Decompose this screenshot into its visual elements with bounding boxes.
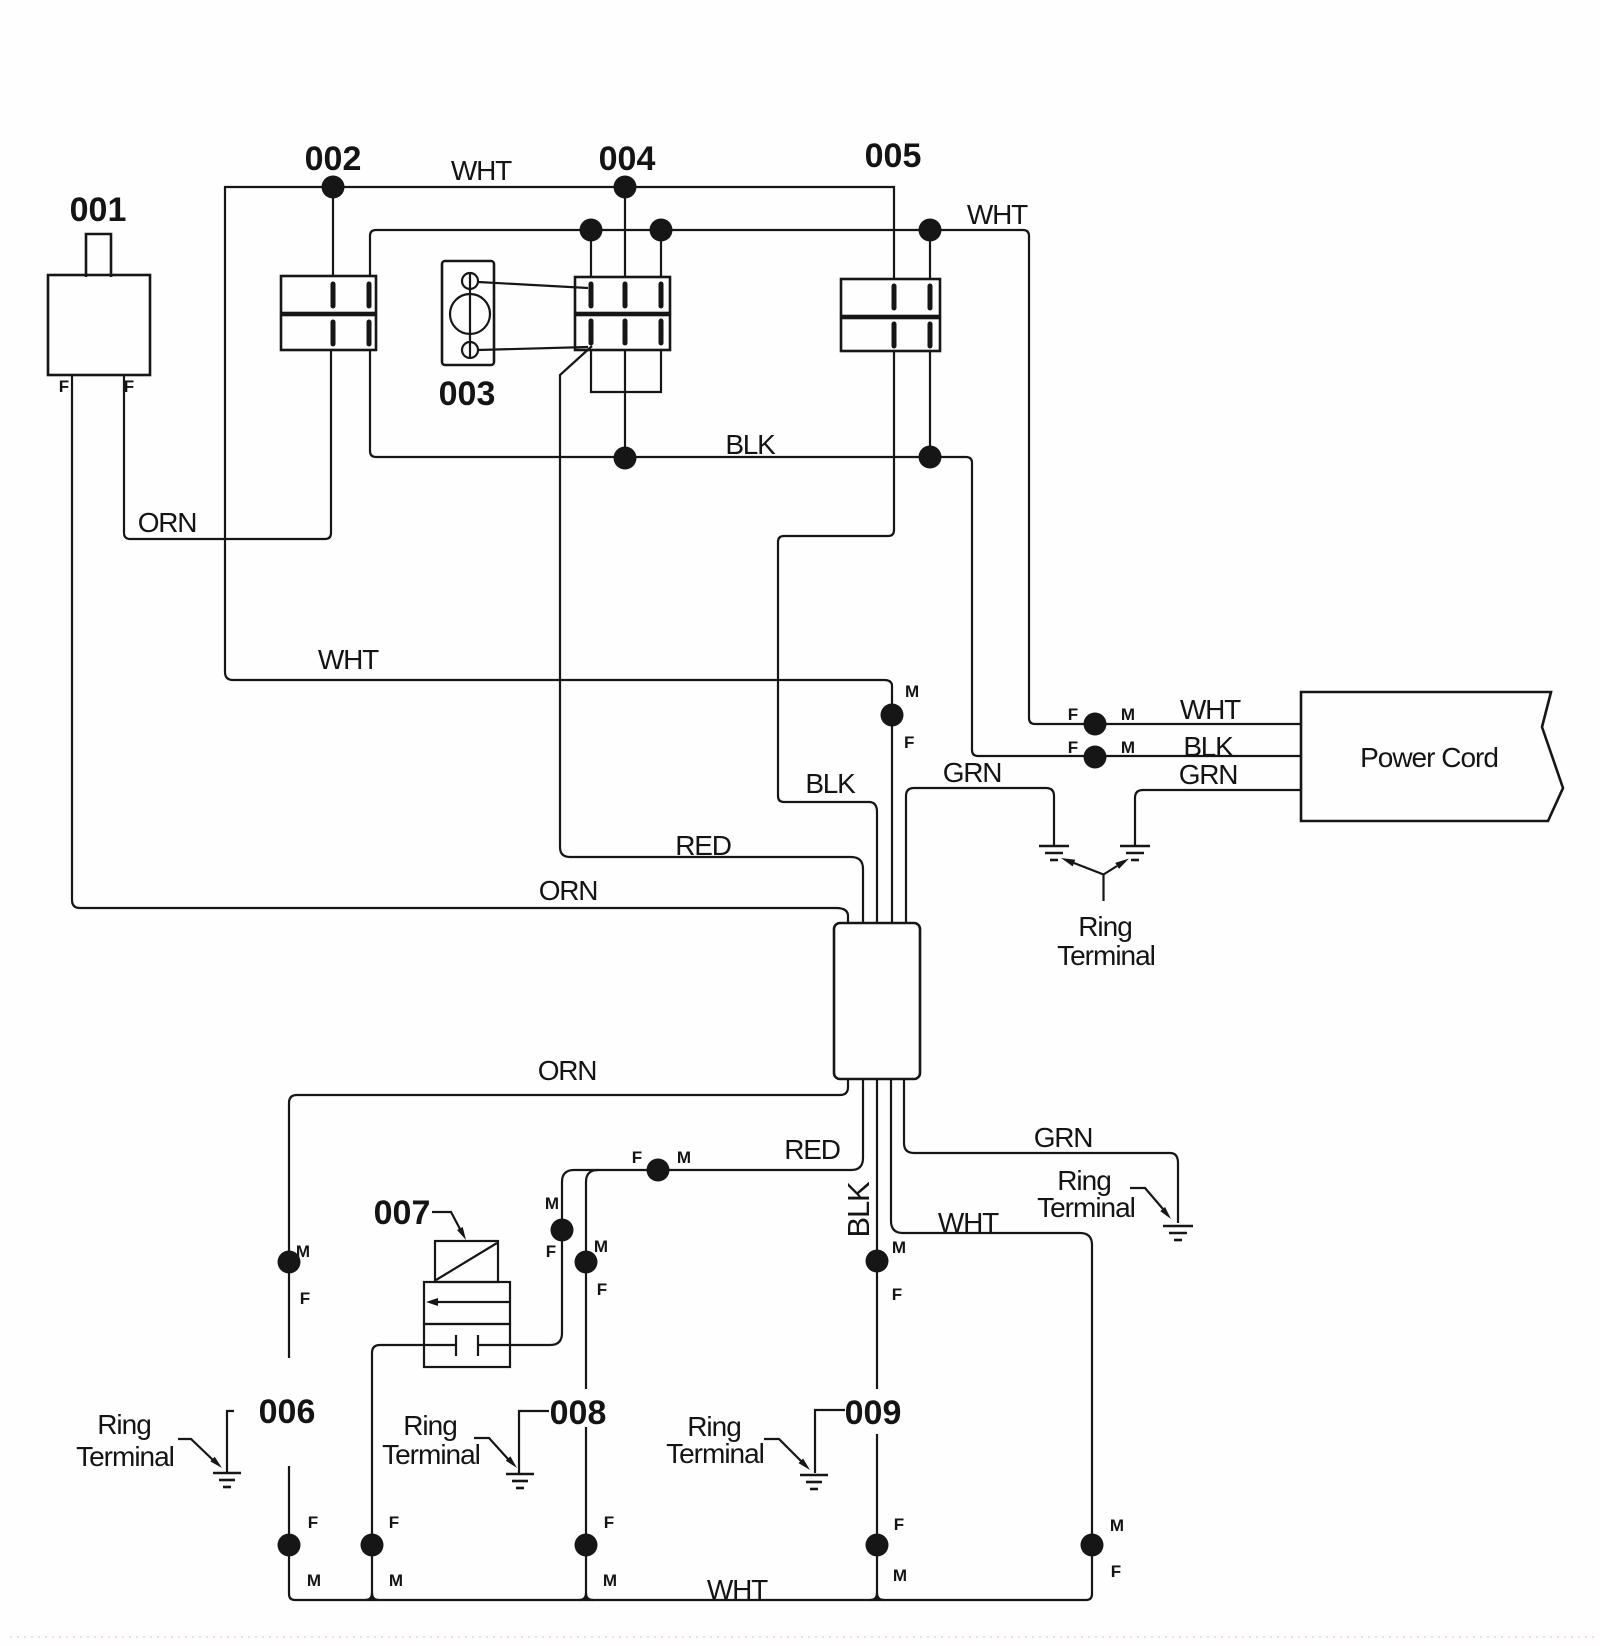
wire RED 004 to junction box [560,346,863,923]
svg-text:WHT: WHT [1180,694,1241,725]
svg-text:M: M [893,1566,907,1585]
svg-text:F: F [604,1513,614,1532]
svg-text:WHT: WHT [451,155,512,186]
svg-text:F: F [546,1242,556,1261]
svg-text:M: M [545,1194,559,1213]
wire fillet 008 rail junction [579,1593,593,1600]
label Ring Terminal power cord with arrows [1057,858,1155,971]
wire ORN 001 to 002 [124,350,331,539]
svg-text:Terminal: Terminal [76,1441,174,1472]
connector dot 006 M-F [278,1242,311,1308]
label Ring Terminal 008 with arrow [382,1410,517,1470]
ground ring terminal left of Power Cord [1039,846,1069,860]
svg-text:ORN: ORN [539,875,598,906]
junction dot 002 [322,176,345,199]
label Ring Terminal GRN right with arrow [1037,1165,1171,1223]
ground ring terminal under Power Cord [1120,846,1150,860]
wire fillet 009 rail junction [870,1593,884,1600]
wire 005 top-right pin drop [929,230,931,279]
svg-text:Ring: Ring [403,1410,457,1441]
svg-text:Terminal: Terminal [666,1438,764,1469]
connector dot 008 bottom F-M [575,1513,618,1590]
svg-text:M: M [1121,705,1135,724]
svg-text:004: 004 [599,140,656,178]
svg-text:M: M [1110,1516,1124,1535]
junction dot BLK 004 [614,447,637,470]
wire 003 bottom to 004 [478,347,588,350]
junction dot BLK 005 [919,446,942,469]
svg-text:F: F [59,377,69,396]
svg-text:Ring: Ring [1078,911,1132,942]
connector dot 008 M-F [575,1237,609,1299]
connector dot 007 M-F [545,1194,574,1261]
scan artifact dotted line [10,1636,1595,1638]
svg-text:006: 006 [259,1393,316,1431]
wire 004 top-left pin drop [590,230,592,277]
svg-text:007: 007 [374,1194,431,1232]
wire fillet 007 rail junction [365,1593,379,1600]
svg-text:WHT: WHT [318,644,379,675]
svg-text:GRN: GRN [1034,1122,1093,1153]
svg-text:BLK: BLK [841,1181,876,1238]
svg-text:002: 002 [305,140,362,178]
svg-text:F: F [1068,738,1078,757]
svg-text:BLK: BLK [805,768,856,799]
wire 002 top-left pin drop [332,187,334,276]
connector 004 body [575,277,670,350]
svg-text:BLK: BLK [1183,731,1234,762]
wire RED junction box to 007 [510,1079,863,1345]
svg-text:M: M [677,1148,691,1167]
svg-text:ORN: ORN [538,1055,597,1086]
svg-text:F: F [1068,705,1078,724]
wire 005 bottom-right drop [929,351,931,458]
label Ring Terminal 009 with arrow [666,1411,810,1470]
label Ring Terminal 006 with arrow [76,1409,222,1472]
wire 008 branch to bottom rail [586,1170,598,1600]
connector dot 007 bottom F-M [361,1513,404,1590]
wire WHT rail B to Power Cord [370,230,1301,724]
svg-text:Terminal: Terminal [382,1439,480,1470]
svg-text:BLK: BLK [725,429,776,460]
connector dot BLK F-M power cord [1068,738,1135,769]
label gap 008 [578,1389,594,1427]
svg-text:GRN: GRN [1179,759,1238,790]
wire 004 bottom-middle drop [624,350,626,458]
svg-text:M: M [307,1571,321,1590]
svg-text:M: M [389,1571,403,1590]
junction dot 004 [614,176,637,199]
junction dot rail B left [580,219,603,242]
wire BLK 005 to junction box [778,351,894,923]
svg-text:F: F [124,377,134,396]
connector dot WHT F-M power cord [1068,705,1135,736]
svg-text:F: F [308,1513,318,1532]
svg-text:F: F [904,733,914,752]
svg-text:M: M [1121,738,1135,757]
svg-text:F: F [1111,1562,1121,1581]
svg-text:005: 005 [865,137,922,175]
wire 003 top to 004 [478,282,588,288]
svg-text:008: 008 [550,1394,607,1432]
svg-text:RED: RED [784,1134,840,1165]
wire GRN junction box to ring terminal [906,788,1054,923]
svg-text:F: F [597,1280,607,1299]
ground ring terminal GRN right [1163,1226,1193,1240]
svg-text:GRN: GRN [943,757,1002,788]
wire WHT rail A with 005/002 drop [225,187,894,923]
Power Cord box [1301,692,1563,821]
wire 007 left to bottom rail [372,1345,424,1600]
wire GRN junction box to right ring terminal [904,1079,1178,1223]
label gap 009 [869,1389,885,1434]
connector dot WHT bottom M-F [1081,1516,1125,1581]
svg-text:F: F [632,1148,642,1167]
connector dot WHT M-F [881,682,920,752]
svg-text:F: F [300,1289,310,1308]
ground ring terminal 008 with leader [506,1411,549,1488]
connector dot BLK M-F [866,1238,907,1304]
svg-text:F: F [892,1285,902,1304]
connector 002 body [281,276,376,350]
svg-text:M: M [603,1571,617,1590]
connector 005 body [841,279,940,351]
ground ring terminal 006 [213,1411,241,1487]
junction dot rail B right [650,219,673,242]
svg-text:Ring: Ring [97,1409,151,1440]
svg-text:RED: RED [675,830,731,861]
label gap 006 [281,1358,297,1466]
svg-text:Terminal: Terminal [1037,1192,1135,1223]
svg-text:001: 001 [70,191,127,229]
label 007 with pointer [374,1194,466,1240]
lamp 003 body [442,261,494,365]
svg-text:Power Cord: Power Cord [1360,742,1498,773]
connector dot 006 bottom F-M [278,1513,322,1590]
svg-text:WHT: WHT [967,199,1028,230]
svg-text:M: M [892,1238,906,1257]
svg-text:WHT: WHT [938,1207,999,1238]
wire 004 bottom U loop [591,350,661,392]
svg-text:F: F [894,1515,904,1534]
wire 004 top-right pin drop [660,230,662,277]
wire BLK rail 002 to Power Cord [370,350,1301,756]
wire ORN 001 left to junction box [72,375,848,923]
solenoid 007 body [424,1241,510,1367]
connector dot RED F-M [632,1148,691,1182]
wire GRN Power Cord to ring terminal [1135,790,1301,845]
wire ORN junction box to 006 plus bottom WHT rail plus WHT right riser [289,1079,1092,1600]
wire 004 top-middle pin drop [624,187,626,277]
connector dot 009 bottom F-M [866,1515,908,1585]
junction dot rail B 005 [919,219,942,242]
svg-text:M: M [594,1237,608,1256]
svg-text:Terminal: Terminal [1057,940,1155,971]
svg-text:009: 009 [845,1394,902,1432]
ground ring terminal 009 with leader [800,1410,845,1489]
svg-text:F: F [389,1513,399,1532]
svg-text:WHT: WHT [707,1574,768,1605]
svg-text:M: M [905,682,919,701]
connector 001 body [48,234,150,375]
wire BLK junction box to 009 to bottom rail [876,1079,878,1600]
svg-text:003: 003 [439,375,496,413]
junction box splice [834,923,920,1079]
svg-text:M: M [296,1242,310,1261]
svg-text:ORN: ORN [138,507,197,538]
